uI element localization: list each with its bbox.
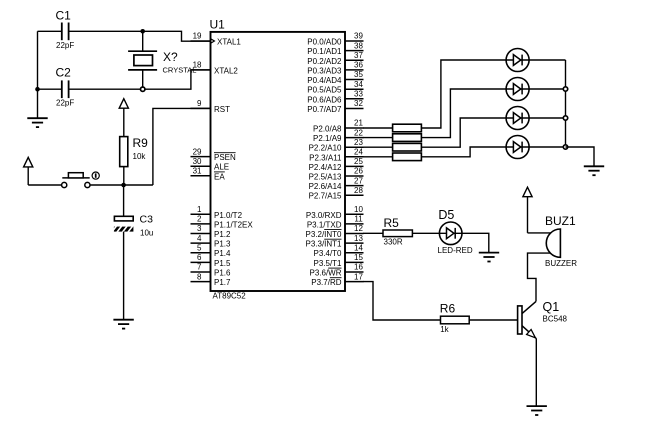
svg-text:29: 29 bbox=[193, 147, 202, 156]
svg-text:15: 15 bbox=[354, 253, 363, 262]
U1 pin 18 (XTAL2) bbox=[191, 61, 239, 76]
svg-text:D5: D5 bbox=[438, 208, 454, 222]
wire P2.1 pin to resistor bbox=[363, 137, 393, 139]
U1 pin 25 (P2.4/A12) bbox=[309, 157, 364, 172]
capacitor C1 bbox=[56, 9, 75, 51]
U1 pin 19 (XTAL1) bbox=[191, 32, 242, 47]
wire buzzer bottom pin to Q1 collector bbox=[528, 253, 551, 301]
U1 pin 8 (P1.7) bbox=[191, 272, 232, 287]
svg-text:3: 3 bbox=[197, 224, 202, 233]
svg-text:AT89C52: AT89C52 bbox=[213, 291, 247, 300]
svg-text:ALE: ALE bbox=[214, 163, 229, 172]
wire P2.2 pin to resistor bbox=[363, 146, 393, 148]
svg-text:XTAL2: XTAL2 bbox=[214, 66, 238, 75]
svg-text:P2.7/A15: P2.7/A15 bbox=[309, 192, 342, 201]
svg-text:EA: EA bbox=[214, 172, 225, 181]
U1 pin 30 (ALE) bbox=[191, 157, 230, 172]
wire P2.3 pin to resistor bbox=[363, 156, 393, 158]
U1 pin 5 (P1.4) bbox=[191, 243, 232, 258]
wire Q1 emitter to ground bbox=[535, 338, 537, 406]
svg-text:C3: C3 bbox=[140, 214, 154, 226]
wire P3.2 pin 12 to R5 bbox=[363, 232, 383, 234]
svg-text:P0.3/AD3: P0.3/AD3 bbox=[307, 66, 342, 75]
svg-text:P1.1/T2EX: P1.1/T2EX bbox=[214, 220, 253, 229]
svg-text:10: 10 bbox=[354, 205, 363, 214]
wire LED cathode bus vertical bbox=[565, 60, 567, 147]
push button (reset) bbox=[62, 172, 100, 188]
svg-text:P1.7: P1.7 bbox=[214, 278, 231, 287]
svg-text:P3.3/INT1: P3.3/INT1 bbox=[305, 240, 342, 249]
wire VCC to button bbox=[28, 184, 62, 186]
svg-text:P3.1/TXD: P3.1/TXD bbox=[307, 220, 342, 229]
svg-text:BUZZER: BUZZER bbox=[545, 259, 577, 268]
svg-text:P0.7/AD7: P0.7/AD7 bbox=[307, 105, 342, 114]
ground (D5) bbox=[479, 253, 499, 262]
svg-text:22: 22 bbox=[354, 128, 363, 137]
svg-text:6: 6 bbox=[197, 253, 202, 262]
svg-text:16: 16 bbox=[354, 263, 363, 272]
ground (left rail) bbox=[27, 118, 47, 127]
wire LED bus to ground bbox=[566, 147, 595, 166]
U1 pin 1 (P1.0/T2) bbox=[191, 205, 243, 220]
svg-text:330R: 330R bbox=[384, 238, 403, 247]
svg-text:P2.2/A10: P2.2/A10 bbox=[309, 144, 342, 153]
svg-text:39: 39 bbox=[354, 32, 363, 41]
svg-text:P0.4/AD4: P0.4/AD4 bbox=[307, 76, 342, 85]
svg-text:25: 25 bbox=[354, 157, 363, 166]
ground (under C3) bbox=[113, 320, 133, 329]
svg-text:XTAL1: XTAL1 bbox=[217, 38, 241, 47]
LED D5 bbox=[438, 208, 473, 255]
U1 pin 24 (P2.3/A11) bbox=[309, 148, 363, 163]
svg-text:2: 2 bbox=[197, 215, 202, 224]
svg-text:10k: 10k bbox=[133, 152, 147, 161]
ground (Q1 emitter) bbox=[527, 406, 547, 415]
svg-text:37: 37 bbox=[354, 51, 363, 60]
svg-text:P2.1/A9: P2.1/A9 bbox=[313, 134, 342, 143]
svg-text:12: 12 bbox=[354, 224, 363, 233]
svg-text:38: 38 bbox=[354, 41, 363, 50]
svg-text:P1.5: P1.5 bbox=[214, 259, 231, 268]
svg-text:P3.6/WR: P3.6/WR bbox=[309, 269, 341, 278]
U1 pin 16 (P3.6/WR) bbox=[309, 263, 363, 278]
U1 pin 26 (P2.5/A13) bbox=[309, 167, 364, 182]
wire P3.7 pin 17 to R6 bbox=[363, 282, 441, 320]
svg-text:1: 1 bbox=[197, 205, 202, 214]
svg-text:P2.4/A12: P2.4/A12 bbox=[309, 163, 342, 172]
U1 pin 14 (P3.4/T0) bbox=[313, 243, 363, 258]
U1 pin 27 (P2.6/A14) bbox=[309, 176, 364, 191]
U1 pin 13 (P3.3/INT1) bbox=[305, 234, 363, 249]
svg-text:33: 33 bbox=[354, 90, 363, 99]
crystal X? bbox=[128, 50, 196, 75]
U1 pin 34 (P0.5/AD5) bbox=[307, 80, 363, 95]
resistor R6 bbox=[440, 302, 469, 334]
svg-text:P3.5/T1: P3.5/T1 bbox=[313, 259, 342, 268]
wire RST pin 9 to reset node bbox=[153, 108, 211, 185]
wire R5 to D5 to ground bbox=[412, 233, 488, 252]
resistor (LED 2 series) bbox=[393, 134, 422, 142]
svg-text:31: 31 bbox=[193, 167, 202, 176]
svg-text:P0.6/AD6: P0.6/AD6 bbox=[307, 95, 342, 104]
U1 pin 15 (P3.5/T1) bbox=[313, 253, 363, 268]
transistor Q1 bbox=[518, 300, 568, 338]
svg-text:P2.3/A11: P2.3/A11 bbox=[309, 153, 342, 162]
node junction C2-crystal bbox=[141, 87, 145, 91]
svg-text:24: 24 bbox=[354, 148, 363, 157]
svg-text:P0.0/AD0: P0.0/AD0 bbox=[307, 38, 342, 47]
svg-text:P2.5/A13: P2.5/A13 bbox=[309, 173, 342, 182]
resistor (LED 4 series) bbox=[393, 153, 422, 161]
wire C2 left lead bbox=[38, 88, 62, 90]
wire resistor 4 to LED 4 row bbox=[421, 147, 565, 157]
capacitor C2 bbox=[56, 66, 75, 108]
U1 pin 23 (P2.2/A10) bbox=[309, 138, 364, 153]
svg-text:30: 30 bbox=[193, 157, 202, 166]
U1 pin 33 (P0.6/AD6) bbox=[307, 90, 363, 105]
LED 4 bbox=[506, 136, 529, 159]
svg-text:X?: X? bbox=[163, 50, 178, 64]
U1 pin 35 (P0.4/AD4) bbox=[307, 70, 363, 85]
svg-text:R9: R9 bbox=[133, 136, 149, 150]
wire R9 bottom lead bbox=[123, 167, 125, 186]
svg-text:13: 13 bbox=[354, 234, 363, 243]
ground (LED bank) bbox=[584, 166, 604, 175]
resistor (LED 1 series) bbox=[393, 124, 422, 132]
svg-text:P3.4/T0: P3.4/T0 bbox=[313, 249, 342, 258]
node junction LED bus row 3 bbox=[563, 116, 567, 120]
U1 pin 2 (P1.1/T2EX) bbox=[191, 215, 254, 230]
svg-text:P3.2/INT0: P3.2/INT0 bbox=[305, 230, 342, 239]
svg-text:11: 11 bbox=[354, 215, 363, 224]
svg-text:4: 4 bbox=[197, 234, 202, 243]
svg-text:10u: 10u bbox=[140, 229, 153, 238]
power VCC arrow (button) bbox=[24, 157, 33, 185]
svg-text:P0.1/AD1: P0.1/AD1 bbox=[307, 47, 342, 56]
svg-text:P1.3: P1.3 bbox=[214, 240, 231, 249]
resistor R9 bbox=[120, 136, 148, 167]
resistor (LED 3 series) bbox=[393, 143, 422, 151]
svg-text:Q1: Q1 bbox=[543, 300, 560, 314]
node junction LED bus row 2 bbox=[563, 87, 567, 91]
node junction C1-crystal bbox=[140, 29, 145, 34]
resistor R5 bbox=[383, 216, 412, 247]
svg-text:U1: U1 bbox=[210, 18, 226, 32]
svg-text:21: 21 bbox=[354, 119, 363, 128]
U1 pin 12 (P3.2/INT0) bbox=[305, 224, 363, 239]
svg-text:P1.4: P1.4 bbox=[214, 249, 231, 258]
svg-text:P2.6/A14: P2.6/A14 bbox=[309, 182, 342, 191]
svg-text:P1.2: P1.2 bbox=[214, 230, 231, 239]
svg-text:9: 9 bbox=[197, 99, 202, 108]
U1 pin 3 (P1.2) bbox=[191, 224, 232, 239]
wire crystal bottom stem bbox=[142, 70, 144, 89]
wire resistor 2 to LED 2 row bbox=[421, 89, 565, 138]
svg-text:23: 23 bbox=[354, 138, 363, 147]
svg-text:P1.6: P1.6 bbox=[214, 269, 231, 278]
wire R6 to Q1 base bbox=[469, 319, 517, 321]
svg-text:22pF: 22pF bbox=[56, 41, 74, 50]
wire C2 right lead to XTAL2 pin 18 bbox=[69, 70, 211, 89]
svg-text:18: 18 bbox=[193, 61, 202, 70]
node junction reset node bbox=[121, 183, 126, 188]
svg-text:R6: R6 bbox=[440, 302, 456, 316]
IC U1 AT89C52 body bbox=[210, 18, 346, 301]
U1 pin 36 (P0.3/AD3) bbox=[307, 61, 363, 76]
U1 pin 6 (P1.5) bbox=[191, 253, 232, 268]
svg-text:19: 19 bbox=[193, 32, 202, 41]
U1 pin 9 (RST) bbox=[191, 99, 231, 114]
wire C1 left lead bbox=[38, 30, 62, 32]
svg-text:28: 28 bbox=[354, 186, 363, 195]
wire C1 right lead to XTAL1 pin 19 bbox=[69, 31, 211, 41]
svg-text:8: 8 bbox=[197, 272, 202, 281]
svg-text:PSEN: PSEN bbox=[214, 153, 236, 162]
wire C3 bottom lead bbox=[123, 232, 125, 320]
svg-text:BUZ1: BUZ1 bbox=[545, 214, 576, 228]
wire P2.0 pin to resistor bbox=[363, 127, 393, 129]
svg-text:P1.0/T2: P1.0/T2 bbox=[214, 211, 243, 220]
svg-text:26: 26 bbox=[354, 167, 363, 176]
svg-text:P2.0/A8: P2.0/A8 bbox=[313, 125, 342, 134]
U1 pin 4 (P1.3) bbox=[191, 234, 232, 249]
svg-text:RST: RST bbox=[214, 105, 230, 114]
wire resistor 3 to LED 3 row bbox=[421, 118, 565, 147]
svg-text:LED-RED: LED-RED bbox=[438, 246, 473, 255]
node junction LED bus row 4 bbox=[563, 145, 567, 149]
U1 pin 28 (P2.7/A15) bbox=[309, 186, 364, 201]
svg-text:C2: C2 bbox=[56, 66, 72, 80]
U1 pin 32 (P0.7/AD7) bbox=[307, 99, 363, 114]
svg-text:1k: 1k bbox=[440, 325, 449, 334]
svg-text:36: 36 bbox=[354, 61, 363, 70]
node junction C2 rail bbox=[35, 87, 40, 92]
svg-text:BC548: BC548 bbox=[543, 315, 568, 324]
U1 pin 37 (P0.2/AD2) bbox=[307, 51, 363, 66]
LED 2 bbox=[506, 78, 529, 101]
wire resistor 1 to LED 1 row bbox=[421, 60, 565, 128]
power VCC arrow (R9) bbox=[119, 99, 128, 137]
svg-text:34: 34 bbox=[354, 80, 363, 89]
svg-text:22pF: 22pF bbox=[56, 99, 74, 108]
U1 pin 21 (P2.0/A8) bbox=[313, 119, 363, 134]
svg-text:27: 27 bbox=[354, 176, 363, 185]
svg-text:35: 35 bbox=[354, 70, 363, 79]
wire crystal top stem bbox=[142, 31, 144, 51]
U1 pin 31 (EA) bbox=[191, 167, 226, 182]
U1 pin 17 (P3.7/RD) bbox=[311, 272, 363, 287]
svg-text:P0.5/AD5: P0.5/AD5 bbox=[307, 86, 342, 95]
svg-text:7: 7 bbox=[197, 263, 202, 272]
wire reset node row bbox=[90, 184, 153, 186]
U1 pin 29 (PSEN) bbox=[191, 147, 237, 162]
U1 pin 10 (P3.0/RXD) bbox=[306, 205, 364, 220]
svg-text:R5: R5 bbox=[384, 216, 400, 230]
buzzer BUZ1 bbox=[545, 214, 577, 268]
wire left vertical VSS rail bbox=[37, 31, 39, 118]
LED 3 bbox=[506, 107, 529, 130]
U1 pin 7 (P1.6) bbox=[191, 263, 232, 278]
U1 pin 22 (P2.1/A9) bbox=[313, 128, 363, 143]
LED 1 bbox=[506, 49, 529, 72]
U1 pin 39 (P0.0/AD0) bbox=[307, 32, 363, 47]
wire VCC to buzzer top pin bbox=[528, 232, 551, 234]
svg-text:5: 5 bbox=[197, 243, 202, 252]
U1 pin 11 (P3.1/TXD) bbox=[307, 215, 364, 230]
svg-text:14: 14 bbox=[354, 243, 363, 252]
svg-text:P3.7/RD: P3.7/RD bbox=[311, 278, 341, 287]
svg-text:P3.0/RXD: P3.0/RXD bbox=[306, 211, 342, 220]
svg-text:P0.2/AD2: P0.2/AD2 bbox=[307, 57, 342, 66]
U1 pin 38 (P0.1/AD1) bbox=[307, 41, 363, 56]
wire C3 top lead bbox=[123, 185, 125, 216]
svg-text:32: 32 bbox=[354, 99, 363, 108]
svg-text:C1: C1 bbox=[56, 9, 72, 23]
capacitor C3 (electrolytic) bbox=[112, 214, 154, 238]
svg-text:17: 17 bbox=[354, 272, 363, 281]
power VCC arrow (buzzer) bbox=[523, 187, 532, 233]
